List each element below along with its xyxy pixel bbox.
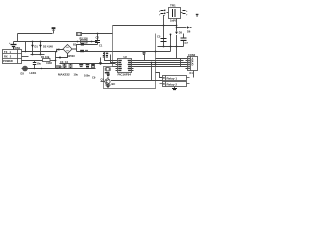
- rail y33: [18, 33, 53, 35]
- relay box dividers: [165, 76, 167, 87]
- res above x144: [143, 52, 146, 53]
- wire y68.5 part2: [59, 68, 96, 70]
- resistor R1 box: [43, 59, 51, 62]
- rail corner down: [17, 34, 19, 42]
- caps near IC top-left: [103, 53, 105, 55]
- relay box 1: [163, 76, 187, 81]
- CON1 box: [3, 50, 22, 64]
- relay box 2: [163, 82, 187, 87]
- labels: [3, 4, 198, 87]
- svg-text:Q1: Q1: [101, 78, 105, 82]
- wire pin y60 left: [105, 52, 116, 61]
- capacitor C7 line: [183, 34, 185, 47]
- bridge B1 diamond: [63, 45, 72, 54]
- cap right of LED wire: [56, 66, 61, 68]
- IC pins right: [132, 61, 134, 71]
- svg-text:+: +: [186, 14, 188, 17]
- svg-text:10u: 10u: [37, 61, 42, 65]
- CON1 wire row3: [22, 60, 43, 62]
- svg-text:D2 4148: D2 4148: [43, 45, 53, 49]
- svg-text:Relay 2: Relay 2: [167, 83, 178, 87]
- comp x93: [91, 64, 95, 66]
- ground under relays: [174, 87, 176, 89]
- diode D6: [187, 26, 190, 29]
- wires IC right y60: [134, 60, 184, 62]
- wire y54: [31, 54, 45, 56]
- bridge bottom wire: [56, 54, 68, 58]
- wire y66 to pin: [113, 66, 116, 68]
- junction y68.5: [34, 68, 35, 69]
- CON2 box: [188, 57, 198, 71]
- svg-text:D6: D6: [187, 30, 191, 34]
- junction dots: [25, 25, 178, 70]
- IC pins left: [116, 61, 118, 71]
- transformer primary wire: [167, 12, 169, 14]
- wire after resistor: [50, 60, 56, 62]
- vertical x180: [180, 59, 182, 67]
- zener line x170: [170, 34, 172, 47]
- wire secondary drop right: [176, 19, 178, 32]
- resistor R2 box: [81, 40, 88, 43]
- svg-text:C1: C1: [99, 44, 103, 48]
- capacitor C5 plates: [161, 39, 167, 42]
- transformer TR1 box: [169, 8, 181, 19]
- svg-text:LED1: LED1: [30, 71, 37, 75]
- svg-text:R1 10k: R1 10k: [41, 55, 50, 59]
- svg-text:CON1: CON1: [13, 46, 21, 50]
- vertical x55.5: [55, 52, 57, 69]
- svg-text:POWER: POWER: [3, 59, 13, 63]
- cap cluster c3: [64, 64, 66, 69]
- svg-text:K1: K1: [190, 71, 194, 75]
- bridge inner marks: [66, 47, 69, 51]
- svg-text:1u 1u: 1u 1u: [59, 64, 67, 68]
- rail y41.5: [14, 41, 98, 43]
- big box module outline: [104, 26, 156, 89]
- svg-text:4148: 4148: [46, 61, 52, 65]
- wire collector to relays: [111, 80, 163, 82]
- zener mark: [169, 34, 171, 36]
- inductor blob on 5V wire: [80, 50, 84, 52]
- svg-text:C9: C9: [92, 76, 96, 80]
- wires IC right y62: [134, 62, 186, 64]
- svg-text:C2: C2: [96, 35, 100, 39]
- svg-text:2x9V: 2x9V: [170, 19, 176, 23]
- battery plates: [11, 45, 17, 47]
- IC U2 box: [118, 59, 132, 73]
- bottom cap rail: [158, 46, 184, 48]
- svg-text:D1: D1: [35, 45, 39, 49]
- comp x87: [86, 64, 90, 65]
- IC inner pin labels left: [118, 60, 122, 71]
- fuse box: [77, 33, 82, 36]
- diode vertical x41: [40, 42, 42, 55]
- svg-text:100n: 100n: [84, 74, 90, 78]
- small blob on y44 wire: [81, 43, 84, 46]
- vertical x144: [144, 55, 146, 61]
- svg-text:D5: D5: [179, 31, 183, 35]
- svg-text:B250C: B250C: [67, 54, 75, 58]
- cap cluster c4: [70, 64, 72, 69]
- wire y68.5: [29, 68, 59, 70]
- cap C6 vertical: [34, 61, 36, 69]
- svg-text:D: D: [192, 63, 194, 67]
- svg-text:AC: AC: [56, 48, 60, 52]
- svg-text:RX 2: RX 2: [4, 54, 12, 58]
- CON2 pin stubs: [186, 59, 188, 69]
- vertical from caps to pin: [111, 55, 116, 63]
- svg-text:Relay 1: Relay 1: [167, 77, 178, 81]
- LED inner: [24, 67, 26, 70]
- transistor internals: [106, 80, 109, 84]
- wire secondary drop left: [164, 16, 165, 47]
- vertical x25: [25, 42, 27, 52]
- LED D3: [23, 66, 28, 71]
- wire from box to relay: [156, 73, 163, 78]
- +5V wire from regulator: [77, 47, 171, 52]
- transformer TR1 windings: [173, 9, 176, 17]
- wire to CON2 row1: [156, 58, 186, 60]
- vertical x151: [151, 63, 153, 81]
- relay right stubs: [187, 78, 190, 84]
- IC inner pin labels right: [128, 60, 131, 71]
- wire secondary drop right lower: [176, 35, 178, 47]
- ground under transistor: [106, 85, 111, 87]
- AC terminal right marks: [183, 11, 186, 14]
- comp blob x81: [79, 64, 83, 65]
- vertical x176 to CON2: [176, 47, 178, 59]
- bridge output wire: [72, 45, 98, 50]
- component above transistor: [107, 74, 110, 75]
- svg-text:B1: B1: [73, 43, 77, 47]
- transformer secondary wire: [181, 12, 183, 14]
- cap C1 vertical: [97, 34, 99, 45]
- svg-text:C7: C7: [185, 41, 189, 45]
- svg-text:U2: U2: [124, 55, 128, 59]
- CON1 wire row1: [22, 50, 64, 52]
- relay2 left pin: [160, 83, 163, 85]
- CON2 drop: [193, 71, 195, 78]
- wire stub to D6: [177, 27, 187, 29]
- svg-text:MAX232: MAX232: [58, 72, 70, 76]
- vertical x100.5 under cap: [100, 58, 102, 63]
- junction blob bottom: [59, 57, 61, 59]
- power flag +5V: [53, 31, 55, 34]
- svg-text:BC: BC: [112, 82, 116, 86]
- wires y66 right: [134, 66, 186, 68]
- AC terminal left marks: [161, 11, 164, 14]
- crystal X1: [106, 68, 109, 71]
- battery drop: [13, 42, 15, 50]
- transistor Q1 circle: [105, 79, 110, 84]
- diode vertical x32: [32, 42, 34, 55]
- svg-text:C5: C5: [157, 35, 161, 39]
- CON1 row lines: [3, 50, 22, 64]
- svg-text:TX 1: TX 1: [4, 50, 11, 54]
- wire y63.5: [60, 63, 116, 65]
- diode D5 on drop: [175, 32, 178, 35]
- cap C1 plates: [95, 41, 100, 43]
- svg-text:R2 220: R2 220: [80, 37, 89, 41]
- capacitor C7 plates: [181, 38, 187, 40]
- far right tick: [196, 14, 199, 15]
- wires y64 right: [134, 64, 186, 66]
- svg-text:10u: 10u: [74, 73, 79, 77]
- top rail: [113, 25, 177, 27]
- svg-text:D3: D3: [21, 72, 25, 76]
- wire after D6: [190, 27, 192, 29]
- svg-text:CON2: CON2: [188, 53, 196, 57]
- svg-text:C3 C4: C3 C4: [60, 60, 69, 64]
- svg-text:PIC16F84: PIC16F84: [118, 73, 132, 77]
- CON2 inner divider: [190, 57, 192, 71]
- CON1 wire row2: [22, 56, 29, 58]
- rail y33 right segment: [82, 33, 113, 35]
- svg-text:TR1: TR1: [170, 4, 176, 8]
- wire base to transistor: [101, 81, 105, 83]
